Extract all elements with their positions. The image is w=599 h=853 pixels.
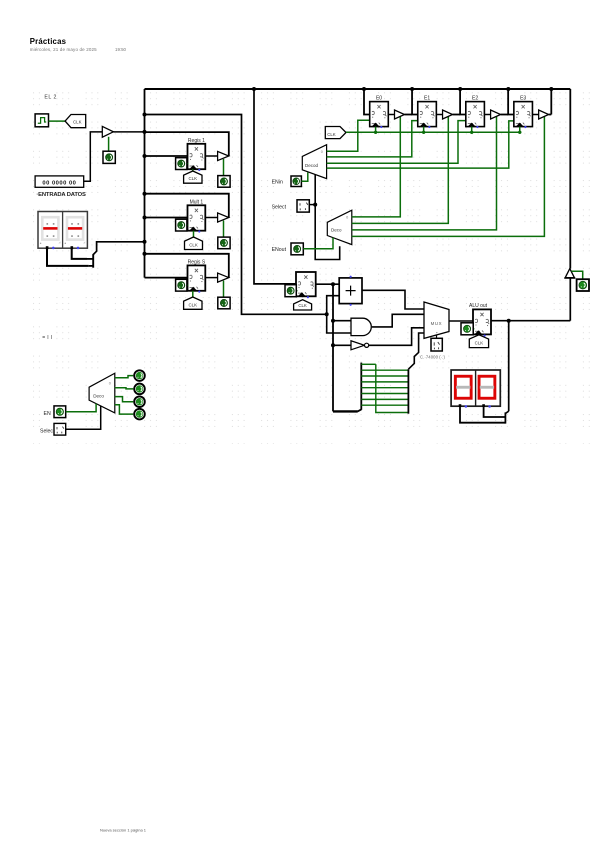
wire clock stub Mult 1 [193, 231, 195, 237]
wire reg to buffer E3 [532, 114, 538, 116]
wire Deco out1 to buffer1 en [352, 116, 449, 224]
svg-text:0: 0 [321, 150, 323, 154]
wire buffer out E0 [405, 114, 413, 116]
wire right bus down [569, 89, 571, 269]
wire digit2 nibble [484, 406, 506, 417]
svg-text:Regis 1: Regis 1 [188, 138, 205, 144]
wire bit7 reroute [376, 364, 408, 412]
probe left of Mult 1 [187, 224, 189, 226]
input pin Select [297, 200, 309, 212]
wire buffer out E3 [549, 114, 552, 116]
wire entrada to buffer [84, 132, 103, 181]
svg-text:Select: Select [272, 205, 287, 211]
svg-text:00 0000 00: 00 0000 00 [42, 181, 76, 187]
wire return loop Regis S [145, 254, 229, 278]
splitter SD [505, 411, 508, 413]
wire clock to tunnel [49, 120, 66, 122]
wire left bus vertical [144, 89, 146, 278]
register Mult 1 [188, 205, 206, 230]
wire digit2 to splitter [72, 249, 87, 259]
svg-text:CLK: CLK [298, 303, 307, 308]
svg-text:Nueva sección 1 página 1: Nueva sección 1 página 1 [100, 828, 147, 833]
svg-text:MUX: MUX [431, 321, 443, 326]
wire top bus horizontal [145, 88, 571, 90]
svg-text:CLK: CLK [189, 176, 198, 181]
svg-text:E3: E3 [520, 95, 526, 101]
svg-text:Deco: Deco [93, 393, 104, 398]
splitter SL [358, 409, 362, 411]
decoder Decod [302, 145, 326, 179]
tri-state buffer Regis S [218, 273, 229, 282]
probe below buffer Mult 1 [218, 237, 230, 249]
input pin ENout [291, 243, 303, 255]
tunnel CLK below ALU out [469, 335, 488, 348]
wire clock stub E0 [375, 127, 377, 133]
svg-text:CLK: CLK [189, 302, 198, 307]
input pin ENTRADA DATOS [35, 176, 84, 187]
wire clock stub E1 [423, 127, 425, 133]
probe left of ALU out [473, 328, 474, 330]
mux MUX [424, 302, 449, 338]
tri-state buffer E2 [491, 110, 501, 119]
decoder Deco2 [89, 373, 115, 413]
AND gate G1 [351, 318, 371, 335]
wire input Regis 1 [145, 155, 188, 157]
probe left of RDM [296, 290, 297, 292]
register ALU out [473, 309, 491, 334]
wire input Mult 1 [145, 217, 188, 219]
tri-state buffer Regis 1 [218, 151, 229, 160]
wire AND in1 [333, 320, 351, 322]
svg-text:Selec.: Selec. [40, 429, 54, 435]
wire register out Regis 1 [205, 155, 217, 157]
wire bit0 rung [361, 404, 408, 406]
wire register out Mult 1 [205, 217, 217, 219]
wire RDM out [316, 283, 340, 285]
wire Decod out1 to E1 en [327, 121, 419, 157]
wire clock stub E2 [471, 127, 473, 133]
svg-text:EL 2: EL 2 [44, 94, 56, 100]
wire adder out to MUX [362, 290, 424, 309]
tunnel CLK below Regis 1 [184, 171, 202, 183]
splitter SR [407, 369, 409, 414]
svg-text:0: 0 [109, 382, 111, 386]
wire adder B input [327, 296, 340, 315]
wire display bus down [508, 321, 510, 412]
LED L1 [134, 384, 145, 395]
probe P2 right [577, 279, 589, 291]
wire input Regis S [145, 277, 188, 279]
svg-text:ENin: ENin [272, 179, 283, 185]
wire mux in4 from splitter bus [408, 333, 424, 369]
wire reg to buffer E0 [388, 114, 394, 116]
hex display D3 [451, 370, 500, 406]
mux select box D2 [431, 338, 442, 351]
input pin ENin [291, 176, 301, 187]
splitter SI [87, 258, 93, 260]
decoder Deco [327, 210, 352, 244]
adder A1 [339, 278, 362, 304]
junction dots top bus [252, 87, 256, 91]
register Regis 1 [188, 144, 206, 169]
svg-text:0: 0 [346, 216, 348, 220]
wire bit4 rung [361, 381, 408, 383]
wire ALU out east [491, 320, 570, 322]
wire register out Regis S [205, 277, 217, 279]
wire input drop E0 [364, 89, 370, 115]
register RDM [296, 272, 316, 296]
buffer up B2 [565, 269, 574, 278]
wire Select to decoders [309, 204, 315, 206]
wire Deco out3 to buffer3 en [352, 116, 545, 237]
wire return loop Regis 1 [145, 132, 229, 156]
svg-text:ALU out: ALU out [469, 303, 488, 309]
wire mux select stub [436, 335, 438, 338]
input pin EN [54, 406, 66, 418]
wire ENin to Decod [301, 173, 307, 182]
wire NOT out to MUX [369, 328, 424, 346]
wire buffer out E2 [501, 114, 509, 116]
display D1 pins [46, 246, 49, 249]
probe below buffer Regis S [218, 297, 230, 309]
probe left of Regis 1 [187, 163, 189, 165]
wire digit1 nibble [460, 406, 505, 422]
svg-text:E2: E2 [472, 95, 478, 101]
svg-text:·ENTRADA DATOS: ·ENTRADA DATOS [36, 192, 86, 198]
register E3 [514, 102, 533, 127]
wire clock stub Regis S [192, 291, 194, 297]
probe P1 [103, 151, 115, 163]
wire probe tap Regis 1 [223, 159, 225, 176]
wire y114 branch [145, 115, 327, 315]
wire return loop Mult 1 [145, 194, 229, 218]
register E1 [418, 102, 437, 127]
junction dots left bus [143, 113, 147, 117]
register Regis S [188, 265, 206, 290]
wire reg to buffer E2 [484, 114, 490, 116]
wire probe tap [108, 137, 110, 151]
wire AND out to MUX [372, 314, 424, 327]
wire NOT in [333, 344, 351, 346]
tri-state buffer Mult 1 [218, 213, 229, 222]
tunnel CLK west [65, 115, 86, 128]
wire input drop E3 [508, 89, 514, 115]
svg-text:E1: E1 [424, 95, 430, 101]
svg-text:Mult 1: Mult 1 [190, 200, 204, 206]
input pin Selec [54, 423, 66, 435]
tunnel CLK below Mult 1 [185, 237, 203, 250]
wire Deco out0 to buffer0 en [352, 116, 401, 217]
NOT gate G2 [351, 341, 364, 350]
wire digit1 to splitter [47, 249, 89, 266]
LED L2 [134, 396, 145, 407]
wire EN to decoder [66, 404, 96, 412]
wire input drop E1 [412, 89, 418, 115]
clock source CLK [35, 114, 48, 127]
wire buffer to bus [113, 131, 144, 133]
svg-text:CLK: CLK [327, 132, 336, 137]
wire bit5 rung [361, 375, 408, 377]
tunnel CLK east [325, 127, 346, 139]
probe left of Regis S [187, 284, 189, 286]
wire splitter to bus [93, 242, 144, 255]
buffer B1 input data [102, 126, 113, 137]
wire probe tap Mult 1 [223, 221, 225, 238]
wire mux out to ALU reg [449, 320, 473, 322]
svg-text:Decod: Decod [305, 163, 319, 168]
wire probe tap right [572, 271, 583, 279]
svg-text:C.·74000 (·.): C.·74000 (·.) [420, 355, 446, 360]
wire E3 out up to bus [550, 89, 552, 115]
wire AND in2 [327, 314, 351, 333]
wire clock stub Regis 1 [192, 169, 194, 171]
wire clock stub E3 [519, 127, 521, 133]
wire Decod out2 to E2 en [327, 121, 467, 164]
wire input drop E2 [460, 89, 466, 115]
probe below buffer Regis 1 [218, 176, 230, 188]
wire Selec to decoder [66, 406, 101, 429]
wire probe tap Regis S [223, 281, 225, 298]
svg-text:CLK: CLK [73, 120, 82, 125]
wire bit2 rung [361, 393, 408, 395]
register E0 [370, 102, 389, 127]
svg-text:ENout: ENout [272, 247, 287, 253]
wire bit7 rung [361, 363, 376, 365]
svg-text:Prácticas: Prácticas [30, 37, 67, 46]
wire buffer out E1 [453, 114, 461, 116]
LED L3 [134, 409, 145, 420]
tri-state buffer E1 [443, 110, 453, 119]
svg-text:EN: EN [44, 411, 51, 417]
tri-state buffer E3 [539, 110, 549, 119]
wire x254 branch to RDM [254, 89, 296, 284]
wire bit6 rung [361, 369, 408, 371]
wire Decod out0 to E0 en [327, 120, 370, 151]
svg-text:CLK: CLK [475, 341, 484, 346]
LED L0 [134, 370, 145, 381]
svg-text:Regis S: Regis S [188, 260, 206, 266]
wire CLK distribution [346, 131, 521, 133]
wire x333 vertical [332, 284, 334, 411]
svg-text:miércoles, 21 de mayo de 2025: miércoles, 21 de mayo de 2025 [30, 47, 97, 52]
svg-text:19:50: 19:50 [115, 47, 127, 52]
wire reg to buffer E1 [436, 114, 442, 116]
svg-text:E0: E0 [376, 95, 382, 101]
tunnel CLK below Regis S [184, 297, 202, 309]
tri-state buffer E0 [395, 110, 405, 119]
tunnel CLK below RDM [294, 300, 312, 310]
wire buffer down to ALU line [569, 278, 571, 321]
svg-text:Deco: Deco [331, 227, 342, 232]
wire bit3 rung [361, 387, 408, 389]
wire bus to left splitter [333, 410, 358, 412]
wire bit1 rung [361, 398, 408, 400]
svg-text:CLK: CLK [189, 243, 198, 248]
wire Decod out3 to E3 en [327, 121, 515, 168]
wires decoder to LEDs [115, 376, 134, 378]
wire ENout to Deco [303, 238, 333, 249]
register E2 [466, 102, 485, 127]
wire Deco out2 to buffer2 en [352, 116, 497, 230]
svg-text:= I I: = I I [42, 335, 52, 341]
hex display D1 [38, 212, 87, 249]
